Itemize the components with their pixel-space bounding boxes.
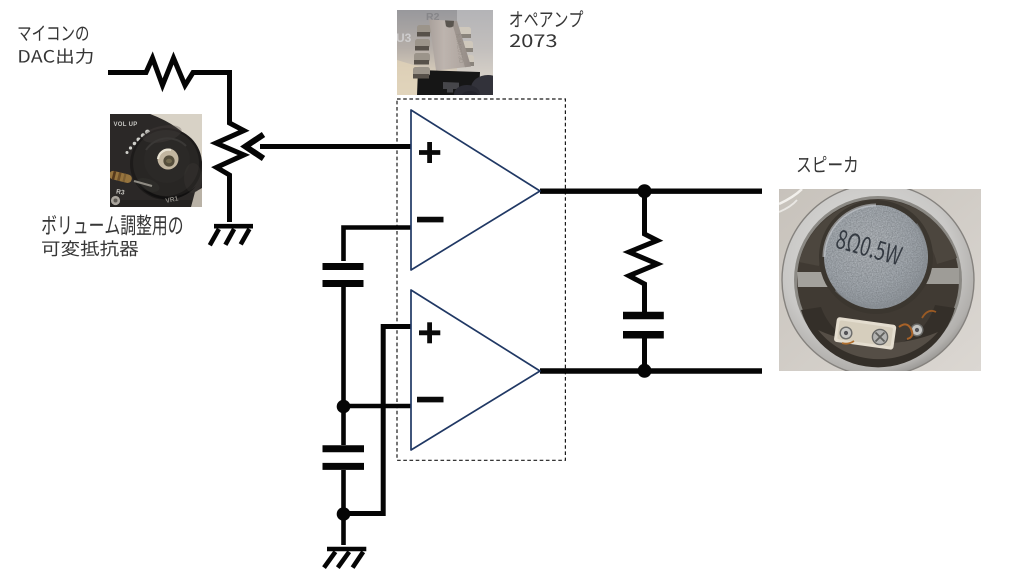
svg-text:U3: U3 [396,31,412,45]
svg-text:VOL UP: VOL UP [114,122,138,128]
svg-text:R3: R3 [116,189,126,197]
